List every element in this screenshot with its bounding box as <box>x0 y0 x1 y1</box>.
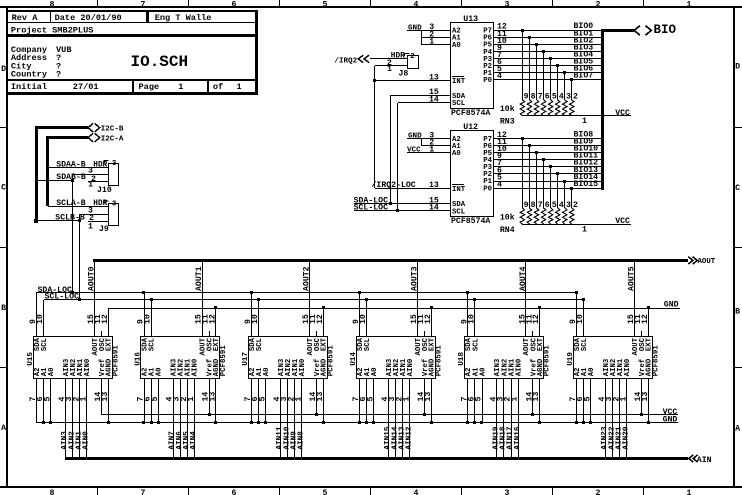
junction U16 A0 gnd <box>157 421 160 424</box>
wire U17 SDA to rail <box>251 293 253 336</box>
svg-text:U19: U19 <box>567 352 575 366</box>
svg-text:AIN0: AIN0 <box>192 359 200 377</box>
junction U18 AGND gnd <box>538 421 541 424</box>
svg-text:2: 2 <box>596 0 601 9</box>
resistor RN3 element pin 7 <box>534 45 542 116</box>
wire U15 SDA to rail <box>36 293 38 336</box>
svg-text:AIN8: AIN8 <box>298 431 306 450</box>
svg-text:5: 5 <box>552 93 557 102</box>
wire U16 AIN5 to AIN bus <box>183 378 191 458</box>
wire U13 P1 net BIO6 <box>494 65 602 75</box>
svg-text:SCL: SCL <box>452 100 465 108</box>
bus I2C-B vertical <box>35 126 38 221</box>
DAC/ADC IC U14 PCF8591 box <box>350 337 444 379</box>
svg-text:5: 5 <box>323 0 328 9</box>
svg-text:2: 2 <box>596 489 601 495</box>
svg-text:GND: GND <box>408 133 422 141</box>
svg-text:1: 1 <box>79 397 88 402</box>
svg-text:AIN0: AIN0 <box>84 359 92 377</box>
wire U16 A1 to ground rail <box>151 378 153 422</box>
wire rail Vref VCC <box>102 414 678 416</box>
wire U17 OSC stub <box>316 331 318 336</box>
svg-text:GND: GND <box>408 24 422 32</box>
wire U13 SCL pin 14 <box>398 95 450 104</box>
wire U14 A1 to ground rail <box>366 378 368 422</box>
resistor RN3 element pin 6 <box>541 52 549 116</box>
wire U17 Vref to VCC rail <box>316 378 318 415</box>
port AIN input <box>689 455 712 465</box>
wire RN3 common to VCC <box>522 116 631 127</box>
wire U12 A2 to GND <box>407 131 450 140</box>
svg-text:EXT: EXT <box>429 337 437 351</box>
resistor RN3 element pin 8 <box>527 37 535 116</box>
wire U19 A1 to ground rail <box>583 378 585 422</box>
svg-text:U16: U16 <box>134 352 142 366</box>
svg-text:P0: P0 <box>483 185 492 193</box>
wire U13 SCL down to SCL-LOC <box>397 103 399 211</box>
svg-text:4: 4 <box>497 180 502 189</box>
svg-text:?: ? <box>56 69 61 79</box>
wire U18 AIN19 to AIN bus <box>493 378 501 458</box>
wire U15 OSC stub <box>101 331 103 336</box>
junction J8 pin1 / U13 INT <box>373 79 376 82</box>
wire U16 A2 to ground rail <box>144 378 146 422</box>
junction U18 Vref rail <box>531 413 534 416</box>
wire U19 AIN23 to AIN bus <box>601 378 609 458</box>
svg-text:U17: U17 <box>242 352 250 366</box>
wire SDAB-B from I2C-B bus <box>36 173 86 182</box>
port AOUT output <box>688 257 716 267</box>
junction U19 SDA rail <box>575 291 578 294</box>
svg-text:1: 1 <box>88 222 93 231</box>
svg-text:7: 7 <box>538 201 543 210</box>
junction U14 A1 gnd <box>365 421 368 424</box>
wire U15 AIN0 to AIN bus <box>83 378 91 458</box>
svg-text:7: 7 <box>141 0 146 9</box>
junction RN3 tap BIO3 <box>542 50 545 53</box>
junction U14 SCL rail <box>365 298 368 301</box>
svg-text:HDR: HDR <box>93 200 107 208</box>
junction U19 AGND gnd <box>647 421 650 424</box>
wire U19 AIN20 to AIN bus <box>623 378 631 458</box>
svg-text:10k: 10k <box>500 212 515 222</box>
svg-text:8: 8 <box>50 0 55 9</box>
junction U18 EXT rail <box>538 306 541 309</box>
resistor RN3 element pin 5 <box>548 59 556 116</box>
wire U18 AIN18 to AIN bus <box>500 378 508 458</box>
svg-text:A0: A0 <box>371 368 379 377</box>
svg-text:SDAA-B: SDAA-B <box>56 161 86 170</box>
svg-text:27/01: 27/01 <box>73 82 99 92</box>
svg-text:1: 1 <box>387 65 392 74</box>
wire U13 A2 to GND <box>407 23 450 32</box>
wire J8 pin1 down to INT nets <box>374 66 376 188</box>
wire U18 Vref to VCC rail <box>532 378 534 415</box>
junction RN3 tap BIO4 <box>549 57 552 60</box>
svg-text:AGND: AGND <box>646 358 654 376</box>
wire U15 A1 to ground rail <box>43 378 45 422</box>
U17 pin names <box>249 337 329 376</box>
wire U14 AIN13 to AIN bus <box>398 378 406 458</box>
junction SDA-LOC <box>389 202 392 205</box>
svg-text:BIO15: BIO15 <box>574 180 599 189</box>
svg-text:AGND: AGND <box>429 358 437 376</box>
svg-text:3: 3 <box>505 489 510 495</box>
svg-text:6: 6 <box>545 93 550 102</box>
junction U15 AGND gnd <box>107 421 110 424</box>
svg-text:I2C-B: I2C-B <box>101 125 124 133</box>
resistor RN4 element pin 8 <box>527 146 535 224</box>
svg-text:1: 1 <box>687 489 692 495</box>
svg-text:SCL: SCL <box>472 338 480 351</box>
wire U16 AIN6 to AIN bus <box>176 378 184 458</box>
wire U16 Vref to VCC rail <box>209 378 211 415</box>
wire U13 INT pin 13 <box>375 73 450 82</box>
svg-text:J9: J9 <box>99 225 109 234</box>
junction SCL-LOC <box>396 209 399 212</box>
wire U18 AGND to ground rail <box>539 378 541 422</box>
wire U13 P3 net BIO4 <box>494 50 602 60</box>
port I2C-A bidirectional <box>88 133 124 143</box>
svg-text:AIN0: AIN0 <box>516 359 524 377</box>
svg-text:5: 5 <box>552 201 557 210</box>
svg-text:AIN0: AIN0 <box>624 359 632 377</box>
DAC/ADC IC U16 PCF8591 box <box>134 337 228 379</box>
junction U17 SDA rail <box>250 291 253 294</box>
svg-text:PCF8574A: PCF8574A <box>451 109 490 118</box>
wire U17 AIN8 to AIN bus <box>298 378 306 458</box>
wire U13 SDA pin 15 <box>390 88 450 97</box>
svg-text:HDR: HDR <box>93 162 107 170</box>
junction U17 A1 gnd <box>257 421 260 424</box>
U17 top pin numbers <box>244 314 325 324</box>
wire U17 AIN10 to AIN bus <box>283 378 291 458</box>
wire U12 P6 net BIO9 <box>494 137 602 147</box>
svg-text:EXT: EXT <box>213 337 221 351</box>
wire U16 A0 to ground rail <box>158 378 160 422</box>
junction RN3 tap BIO0 <box>521 29 524 32</box>
U19 pin names <box>574 337 654 376</box>
wire U14 SDA to rail <box>359 293 361 336</box>
svg-text:3: 3 <box>505 0 510 9</box>
svg-text:Country: Country <box>11 69 47 79</box>
wire U13 A1 tie <box>421 30 450 39</box>
svg-text:INT: INT <box>452 78 466 86</box>
svg-text:AIN0: AIN0 <box>83 431 91 450</box>
wire U19 AGND to ground rail <box>648 378 650 422</box>
svg-text:A0: A0 <box>588 368 596 377</box>
svg-text:Page: Page <box>139 82 160 92</box>
svg-text:8: 8 <box>531 201 536 210</box>
svg-text:AOUT5: AOUT5 <box>628 266 637 291</box>
wire U17 AIN9 to AIN bus <box>290 378 298 458</box>
wire U15 EXT to GND rail <box>108 308 110 336</box>
svg-text:6: 6 <box>232 489 237 495</box>
junction U16 EXT rail <box>214 306 217 309</box>
junction U19 EXT rail <box>647 306 650 309</box>
svg-text:SCL: SCL <box>452 208 465 216</box>
junction RN3 tap BIO6 <box>563 71 566 74</box>
svg-text:1: 1 <box>429 37 434 46</box>
svg-text:3: 3 <box>566 93 571 102</box>
svg-text:RN4: RN4 <box>500 226 515 235</box>
wire U12 P5 net BIO10 <box>494 145 602 155</box>
resistor RN4 element pin 9 <box>520 139 528 224</box>
svg-text:SCL: SCL <box>256 338 264 351</box>
border row letters right <box>735 63 740 434</box>
svg-text:10: 10 <box>467 314 476 324</box>
wire U15 Vref to VCC rail <box>101 378 103 415</box>
wire U16 AOUT to bus / net AOUT1 <box>195 260 204 336</box>
junction AOUT1 bus <box>200 259 203 262</box>
wire U12 P1 net BIO14 <box>494 173 602 183</box>
wire U13 P5 net BIO2 <box>494 36 602 46</box>
connector J9 HDR <box>93 200 118 234</box>
svg-text:1: 1 <box>619 397 628 402</box>
junction RN4 tap BIO15 <box>570 187 573 190</box>
svg-text:2: 2 <box>573 201 578 210</box>
wire J9 pin 2 <box>79 214 109 223</box>
wire U14 OSC stub <box>424 331 426 336</box>
wire J8 pin 1 <box>375 65 407 74</box>
junction U14 SDA rail <box>358 291 361 294</box>
wire J9 pin 1 stub <box>88 222 109 232</box>
wire SCL local vertical to rail <box>79 215 81 300</box>
wire U14 Vref to VCC rail <box>424 378 426 415</box>
U15 pin names <box>34 337 114 376</box>
wire U15 SCL to rail <box>43 300 45 336</box>
svg-text:HDR: HDR <box>391 52 405 60</box>
junction U16 AGND gnd <box>214 421 217 424</box>
wire U16 EXT to GND rail <box>215 308 217 336</box>
U13 pin names <box>452 28 493 109</box>
U18 pin names <box>465 337 545 376</box>
resistor RN3 element pin 3 <box>563 73 571 116</box>
wire U15 AIN1 to AIN bus <box>75 378 83 458</box>
svg-text:Project SMB2PLUS: Project SMB2PLUS <box>11 26 94 36</box>
svg-text:INT: INT <box>452 186 466 194</box>
wire U17 SCL to rail <box>258 300 260 336</box>
junction U17 A2 gnd <box>250 421 253 424</box>
U15 bottom pin numbers <box>29 392 110 402</box>
resistor RN4 element pin 5 <box>548 167 556 224</box>
resistor RN4 element pin 6 <box>541 160 549 224</box>
wire U17 AGND to ground rail <box>323 378 325 422</box>
resistor RN3 element pin 2 <box>570 80 578 116</box>
wire U13 P2 net BIO5 <box>494 58 602 68</box>
wire U19 SDA to rail <box>576 293 578 336</box>
svg-text:C: C <box>1 183 6 192</box>
resistor network RN3 10K <box>500 104 515 126</box>
svg-text:AIN12: AIN12 <box>406 426 414 449</box>
svg-text:Initial: Initial <box>11 82 47 92</box>
op IC U12 PCF8574A box <box>451 123 494 226</box>
wire U12 P4 net BIO11 <box>494 152 602 162</box>
wire U19 AOUT to bus / net AOUT5 <box>628 260 637 336</box>
wire U17 AIN11 to AIN bus <box>276 378 284 458</box>
junction U19 A1 gnd <box>582 421 585 424</box>
junction RN3 tap BIO2 <box>535 43 538 46</box>
svg-text:PCF8574A: PCF8574A <box>451 217 490 226</box>
junction U18 A2 gnd <box>466 421 469 424</box>
junction RN3 tap BIO7 <box>570 78 573 81</box>
junction U16 A2 gnd <box>142 421 145 424</box>
svg-text:GND: GND <box>663 416 678 425</box>
svg-text:SCL: SCL <box>364 338 372 351</box>
svg-text:AGND: AGND <box>213 358 221 376</box>
wire U13 P4 net BIO3 <box>494 43 602 53</box>
svg-text:9: 9 <box>524 93 529 102</box>
svg-text:EXT: EXT <box>537 337 545 351</box>
svg-text:1: 1 <box>582 117 587 126</box>
wire U18 SCL to rail <box>474 300 476 336</box>
title block initial/page row <box>11 82 242 92</box>
wire U18 A2 to ground rail <box>467 378 469 422</box>
svg-text:3: 3 <box>112 160 117 168</box>
wire GND tie vertical U12 <box>421 139 423 146</box>
wire U18 AIN17 to AIN bus <box>507 378 515 458</box>
junction U17 A0 gnd <box>264 421 267 424</box>
wire U16 AIN4 to AIN bus <box>190 378 198 458</box>
wire U12 P0 net BIO15 <box>494 180 602 190</box>
svg-text:5: 5 <box>323 489 328 495</box>
wire SDA local vertical to rail <box>72 174 74 293</box>
junction RN4 tap BIO12 <box>549 165 552 168</box>
svg-text:AGND: AGND <box>321 358 329 376</box>
svg-text:AIN: AIN <box>697 456 712 465</box>
svg-text:AIN16: AIN16 <box>514 426 522 449</box>
wire rail SCL-LOC <box>44 293 584 302</box>
wire GND tie vertical <box>421 30 423 45</box>
junction U19 SCL rail <box>582 298 585 301</box>
resistor RN3 element pin 4 <box>556 66 564 116</box>
svg-text:of: of <box>213 82 223 92</box>
svg-text:AOUT: AOUT <box>698 258 716 266</box>
svg-text:1: 1 <box>402 397 411 402</box>
junction SCLB-B tap <box>78 219 81 222</box>
port I2C-B bidirectional <box>88 123 124 133</box>
U16 bottom pin numbers <box>137 392 218 402</box>
svg-text:4: 4 <box>414 489 419 495</box>
U16 pin names <box>141 337 221 376</box>
bus AOUT horizontal <box>93 259 688 262</box>
U15 top pin numbers <box>29 314 110 324</box>
junction I2C-A / SDAA-B <box>46 166 49 169</box>
wire U14 AIN14 to AIN bus <box>391 378 399 458</box>
U17 bottom pin numbers <box>244 392 325 402</box>
svg-text:D: D <box>735 63 740 72</box>
wire U12 A0 to VCC <box>407 146 450 155</box>
junction U14 EXT rail <box>430 306 433 309</box>
svg-text:4: 4 <box>559 93 564 102</box>
border column numbers bottom <box>50 489 692 495</box>
junction U14 A0 gnd <box>372 421 375 424</box>
title block company info <box>11 45 72 79</box>
wire U16 OSC stub <box>209 331 211 336</box>
svg-text:SCL: SCL <box>581 338 589 351</box>
junction RN3 tap BIO1 <box>528 36 531 39</box>
svg-text:AIN0: AIN0 <box>407 359 415 377</box>
wire U12 P3 net BIO12 <box>494 159 602 169</box>
junction U14 A2 gnd <box>358 421 361 424</box>
svg-text:P0: P0 <box>483 77 492 85</box>
junction AOUT3 bus <box>416 259 419 262</box>
wire RN4 common to VCC <box>522 225 631 235</box>
svg-text:B: B <box>1 304 6 313</box>
junction U16 Vref rail <box>208 413 211 416</box>
U16 top pin numbers <box>137 314 218 324</box>
svg-text:AOUT3: AOUT3 <box>411 266 420 291</box>
svg-text:A0: A0 <box>479 368 487 377</box>
svg-text:13: 13 <box>429 73 439 82</box>
junction I2C-B / SDAB-B <box>35 179 38 182</box>
svg-text:AGND: AGND <box>106 358 114 376</box>
wire U14 AGND to ground rail <box>431 378 433 422</box>
wire U14 SCL to rail <box>366 300 368 336</box>
wire J10 pin 2 <box>72 175 109 184</box>
connector J10 HDR <box>93 160 118 195</box>
svg-text:A0: A0 <box>156 368 164 377</box>
junction RN4 tap BIO8 <box>521 137 524 140</box>
svg-text:BIO: BIO <box>654 23 677 37</box>
wire U19 EXT to GND rail <box>648 308 650 336</box>
wire U15 A2 to ground rail <box>36 378 38 422</box>
wire U18 SDA to rail <box>467 293 469 336</box>
junction RN4 tap BIO11 <box>542 158 545 161</box>
wire U16 SDA to rail <box>144 293 146 336</box>
junction U16 SDA rail <box>142 291 145 294</box>
wire U16 SCL to rail <box>151 300 153 336</box>
connector J8 HDR <box>391 52 419 78</box>
DAC/ADC IC U19 PCF8591 box <box>567 337 661 379</box>
port BIO bidirectional <box>634 23 676 37</box>
svg-text:6: 6 <box>545 201 550 210</box>
wire U18 EXT to GND rail <box>539 308 541 336</box>
resistor RN4 element pin 2 <box>570 188 578 224</box>
svg-text:4: 4 <box>414 0 419 9</box>
svg-text:AIN20: AIN20 <box>623 426 631 449</box>
border column numbers top <box>50 0 692 9</box>
svg-text:RN3: RN3 <box>500 118 515 127</box>
wire U13 A0 tie <box>421 37 450 46</box>
U14 pin names <box>357 337 437 376</box>
svg-text:4: 4 <box>559 201 564 210</box>
junction U18 SDA rail <box>466 291 469 294</box>
wire SCLB-B from I2C-B bus <box>36 213 85 222</box>
svg-text:BIO7: BIO7 <box>574 72 594 81</box>
junction U17 AGND gnd <box>322 421 325 424</box>
wire U17 A2 to ground rail <box>251 378 253 422</box>
wire U12 A1 tie <box>421 139 450 148</box>
svg-text:13: 13 <box>429 181 439 190</box>
title block frame <box>7 10 258 95</box>
svg-text:U14: U14 <box>350 352 358 366</box>
wire U19 OSC stub <box>641 331 643 336</box>
wire U13 P7 net BIO0 <box>494 22 602 32</box>
wire U12 SDA net SDA-LOC <box>354 196 450 205</box>
op IC U13 PCF8574A box <box>451 15 494 118</box>
resistor RN4 element pin 7 <box>534 153 542 224</box>
wire U15 AIN2 to AIN bus <box>68 378 76 458</box>
junction v-SCL rail <box>78 298 81 301</box>
svg-text:AOUT1: AOUT1 <box>195 266 204 291</box>
wire U19 A0 to ground rail <box>590 378 592 422</box>
svg-text:A: A <box>1 424 6 433</box>
wire U14 A0 to ground rail <box>373 378 375 422</box>
svg-text:J8: J8 <box>399 70 409 79</box>
svg-text:1: 1 <box>178 82 183 92</box>
wire U12 SCL net SCL-LOC <box>354 204 450 213</box>
